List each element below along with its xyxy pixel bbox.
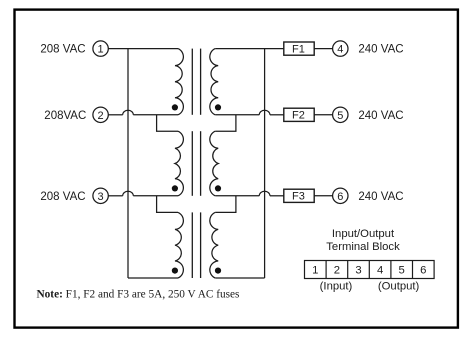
- svg-text:6: 6: [420, 265, 426, 277]
- svg-text:208 VAC: 208 VAC: [40, 44, 85, 56]
- terminal block: [305, 261, 435, 279]
- wire input 1 to primary W1 top: [108, 48, 178, 50]
- wire secondary W3 bottom to right bus: [215, 277, 264, 279]
- transformer T1 secondary polarity dot: [215, 104, 221, 110]
- wire jog W2 bottom to W3 top: [157, 196, 178, 213]
- svg-text:4: 4: [377, 265, 383, 277]
- svg-text:4: 4: [337, 44, 343, 56]
- svg-text:F2: F2: [292, 110, 305, 122]
- wire jog secondary W1 bottom to W2 top: [215, 115, 236, 131]
- svg-text:1: 1: [98, 44, 104, 56]
- svg-text:Note: F1, F2 and F3 are 5A, 25: Note: F1, F2 and F3 are 5A, 250 V AC fus…: [37, 289, 240, 301]
- wire hop: input 2 over left bus: [123, 110, 134, 115]
- svg-text:5: 5: [337, 110, 343, 122]
- svg-text:5: 5: [399, 265, 405, 277]
- transformer T2 core: [192, 131, 200, 196]
- wire input 2 to primary W1 bottom: [108, 114, 122, 116]
- wire secondary W1 bottom to fuse F2: [215, 114, 259, 116]
- left bus vertical wire (input 1 to primary W3 bottom): [127, 49, 129, 278]
- output terminal node 4: [333, 41, 348, 56]
- wire secondary W2 bottom to fuse F3: [215, 195, 259, 197]
- svg-text:1: 1: [312, 265, 318, 277]
- svg-text:208 VAC: 208 VAC: [40, 191, 85, 203]
- wire jog W1 bottom to W2 top: [157, 115, 178, 131]
- wire primary W3 bottom to left bus: [128, 277, 178, 279]
- transformer T3 primary winding: [175, 212, 183, 278]
- fuse F1: [284, 42, 314, 56]
- transformer T2 secondary winding: [210, 131, 218, 196]
- output terminal node 6: [333, 188, 348, 203]
- svg-text:6: 6: [337, 191, 343, 203]
- wire fuse F1 to output terminal 4: [314, 48, 332, 50]
- svg-text:Terminal Block: Terminal Block: [326, 241, 400, 253]
- right bus vertical wire (F1 node to secondary W3 bottom): [264, 49, 266, 278]
- input terminal node 1: [93, 41, 108, 56]
- transformer T1 secondary winding: [210, 49, 218, 115]
- wire fuse F2 to output terminal 5: [314, 114, 332, 116]
- transformer T1 primary winding: [175, 49, 183, 115]
- transformer T1 primary polarity dot: [172, 104, 178, 110]
- transformer T2 primary winding: [175, 131, 183, 196]
- svg-text:2: 2: [98, 110, 104, 122]
- input terminal node 3: [93, 188, 108, 203]
- transformer T1 core: [192, 49, 200, 115]
- svg-text:240 VAC: 240 VAC: [358, 44, 403, 56]
- wire jog secondary W2 bottom to W3 top: [215, 196, 236, 213]
- transformer T3 primary polarity dot: [172, 268, 178, 274]
- svg-text:2: 2: [334, 265, 340, 277]
- svg-text:240 VAC: 240 VAC: [358, 110, 403, 122]
- wire fuse F3 to output terminal 6: [314, 195, 332, 197]
- svg-text:3: 3: [98, 191, 104, 203]
- svg-text:F1: F1: [292, 44, 305, 56]
- svg-text:3: 3: [355, 265, 361, 277]
- svg-text:(Input): (Input): [320, 281, 353, 293]
- output terminal node 5: [333, 107, 348, 122]
- transformer T3 secondary polarity dot: [215, 268, 221, 274]
- svg-text:240 VAC: 240 VAC: [358, 191, 403, 203]
- svg-text:208VAC: 208VAC: [44, 110, 86, 122]
- wire secondary W1 top to fuse F1: [215, 48, 284, 50]
- svg-text:F3: F3: [292, 191, 305, 203]
- wire input 3 to primary W2 bottom: [108, 195, 122, 197]
- transformer T3 core: [192, 212, 200, 278]
- fuse F3: [284, 189, 314, 203]
- wire hop: F2 wire over right bus: [259, 110, 270, 115]
- wire hop: input 3 over left bus: [123, 191, 134, 196]
- transformer T2 secondary polarity dot: [215, 185, 221, 191]
- input terminal node 2: [93, 107, 108, 122]
- fuse F2: [284, 108, 314, 122]
- wire hop: F3 wire over right bus: [259, 191, 270, 196]
- transformer T3 secondary winding: [210, 212, 218, 278]
- svg-text:(Output): (Output): [378, 281, 420, 293]
- svg-text:Input/Output: Input/Output: [332, 228, 395, 240]
- transformer T2 primary polarity dot: [172, 185, 178, 191]
